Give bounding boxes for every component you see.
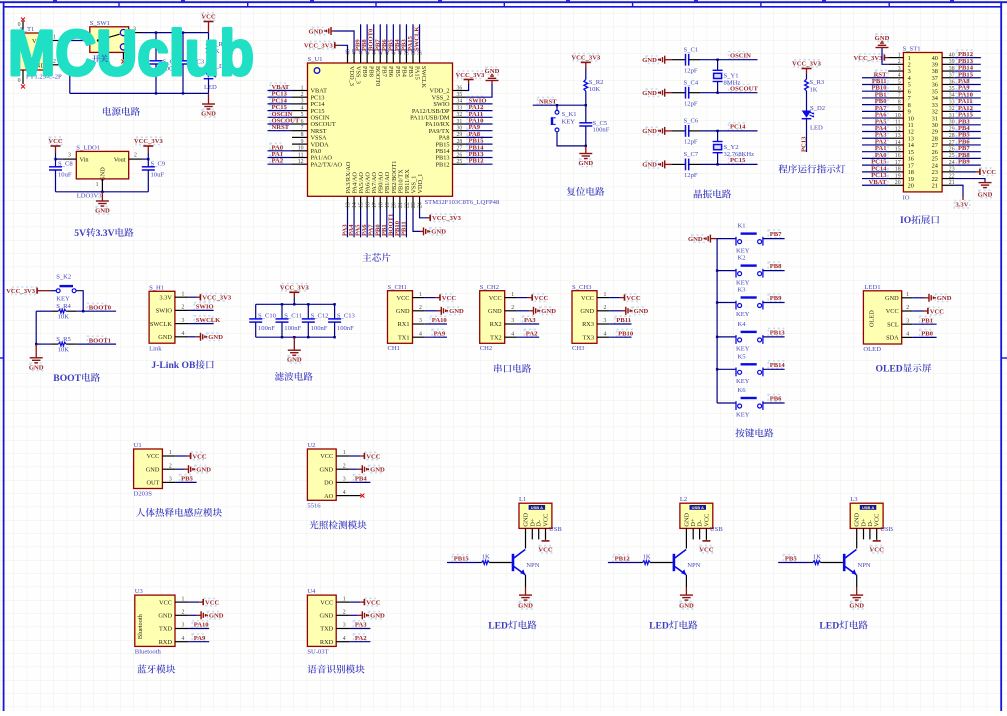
pin 0 top of S_T1 (22, 21, 24, 33)
junction y1 top (716, 59, 718, 61)
wire net PA9 (466, 130, 493, 132)
wire io right PB4 (954, 131, 981, 133)
ST1 pin 38 (942, 70, 954, 72)
svg-text:2: 2 (906, 305, 909, 311)
svg-text:GND: GND (978, 191, 993, 198)
wire rail to K5 (717, 368, 736, 370)
ST1 pin 9 (888, 110, 903, 112)
svg-text:1: 1 (511, 292, 514, 298)
wire net PB4 U2 (350, 481, 371, 483)
svg-text:SCL: SCL (887, 321, 899, 328)
svg-text:10uF: 10uF (151, 172, 165, 179)
svg-text:PB14: PB14 (770, 362, 786, 369)
switch bottom pin b (122, 52, 124, 59)
pin 32 PA11/USB/DM (453, 116, 467, 118)
wire base PB5 (778, 562, 809, 564)
U3 pin 3 TXD (175, 628, 188, 630)
ground GND U3 (188, 614, 196, 616)
svg-text:1: 1 (604, 292, 607, 298)
svg-text:GND: GND (29, 364, 44, 371)
power port VCC ch1 (425, 297, 436, 299)
svg-text:15: 15 (359, 202, 365, 208)
transistor Q NPN L1 (512, 554, 515, 571)
pin 17 PA7/AO (373, 196, 375, 209)
svg-text:30: 30 (949, 120, 955, 126)
svg-text:1: 1 (96, 182, 99, 188)
ground GND S_C7 (664, 160, 666, 168)
svg-text:KEY: KEY (736, 346, 750, 353)
pin 2 Vout (129, 158, 142, 160)
pin 28 PB15 (453, 143, 467, 145)
U2 pin 1 VCC (336, 455, 349, 457)
svg-text:3: 3 (511, 318, 514, 324)
H1 pin 3 SWCLK (175, 323, 188, 325)
svg-text:S_D2: S_D2 (810, 105, 825, 112)
svg-text:7: 7 (898, 93, 901, 99)
svg-text:4: 4 (182, 636, 185, 642)
svg-text:VCC: VCC (886, 308, 899, 315)
U3 pin 1 VCC (175, 601, 188, 603)
svg-text:GND: GND (287, 357, 302, 364)
junction rail K3 (716, 301, 718, 303)
svg-text:1K: 1K (810, 87, 818, 94)
svg-text:14: 14 (895, 140, 901, 146)
pin 26 PB13 (453, 157, 467, 159)
key S_K2 (56, 289, 60, 293)
power port VCC_3V3 io (884, 57, 888, 59)
pin 46 PB9 (360, 53, 362, 63)
svg-text:3: 3 (169, 477, 172, 483)
wire io left VBAT (862, 184, 888, 186)
svg-text:100nF: 100nF (284, 325, 301, 332)
junction bot S_C13 (333, 336, 335, 338)
svg-text:K6: K6 (738, 387, 747, 394)
svg-text:U4: U4 (307, 588, 316, 595)
wire top net SWCLK (419, 24, 421, 53)
power bottom rail wire (70, 92, 209, 94)
wire net OSCOUT (268, 123, 293, 125)
svg-text:32: 32 (949, 106, 955, 112)
wire net PA3 (517, 323, 539, 325)
ST1 pin 15 (888, 151, 903, 153)
ground GND S_C1 (664, 56, 666, 64)
connector S_CH3 body (572, 291, 597, 344)
svg-text:OSCIN: OSCIN (730, 53, 751, 60)
wire net SWIO (188, 309, 214, 311)
svg-text:40: 40 (949, 52, 955, 58)
svg-text:GND: GND (95, 208, 110, 215)
svg-text:GND: GND (196, 467, 211, 474)
svg-text:10uF: 10uF (58, 172, 72, 179)
ST1 pin 28 (942, 137, 954, 139)
ground GND oled (912, 297, 924, 299)
pin 4 PC15 (292, 110, 308, 112)
pin 25 PB12 (453, 163, 467, 165)
svg-text:K1: K1 (738, 223, 746, 230)
wire D1 to rail (208, 79, 210, 94)
svg-text:32: 32 (457, 112, 463, 118)
wire top net PB5 (392, 24, 394, 53)
svg-text:S_K2: S_K2 (56, 273, 71, 280)
svg-text:GND: GND (320, 466, 334, 473)
CH2 pin 1 VCC (505, 297, 517, 299)
ST1 pin 11 (888, 124, 903, 126)
svg-text:PB10: PB10 (618, 330, 634, 337)
power port VCC (204, 21, 214, 23)
svg-text:1: 1 (169, 450, 172, 456)
connector S_T1 (16, 33, 49, 70)
power port VCC U3 (188, 601, 199, 603)
wire io right PB9 (954, 164, 981, 166)
svg-text:LED: LED (819, 621, 839, 632)
L2 emitter wire (685, 575, 687, 588)
svg-text:GND: GND (541, 308, 556, 315)
ground GND L3 (856, 588, 858, 595)
L1 pin D+ (531, 528, 533, 539)
module U3 body (135, 595, 175, 646)
power port VCC U2 (350, 455, 361, 457)
wire net PC13 (268, 96, 293, 98)
pin 41 PB5 (392, 53, 394, 63)
pin 33 PA12/USB/DP (453, 110, 467, 112)
svg-text:BOOT0: BOOT0 (89, 304, 112, 311)
ST1 pin 33 (942, 104, 954, 106)
pin 47 VSS_3 (353, 53, 355, 63)
svg-text:20: 20 (908, 182, 914, 189)
wire R1 to D1 (208, 54, 210, 70)
ST1 pin 13 (888, 137, 903, 139)
power port VCC_3V3 reset (581, 61, 591, 63)
capacitor S_C4 (672, 92, 686, 94)
pin 23 VSS_1 (412, 196, 414, 209)
connector S_CH2 body (480, 291, 505, 344)
U2 no-connect pin (350, 495, 361, 497)
U4 pin 2 GND (336, 614, 349, 616)
wire io left RST (862, 77, 888, 79)
wire boot0 left (36, 310, 52, 312)
svg-text:1: 1 (898, 52, 901, 58)
svg-text:3.3V: 3.3V (96, 228, 115, 239)
junction boot1 (35, 343, 37, 345)
svg-text:PB5: PB5 (181, 476, 193, 483)
svg-text:4: 4 (343, 636, 346, 642)
svg-text:GND: GND (309, 28, 324, 35)
svg-text:9: 9 (301, 139, 304, 145)
svg-text:GND: GND (431, 229, 446, 236)
U1 pin 2 GND (162, 468, 175, 470)
svg-text:VCC_3V3: VCC_3V3 (571, 55, 601, 62)
power port VCC L1 (545, 528, 547, 539)
LED S_D1 (204, 71, 214, 78)
junction rail K5 (716, 368, 718, 370)
svg-text:VCC: VCC (870, 547, 885, 554)
regulator S_LDO1 (76, 151, 128, 179)
module U2 body (307, 449, 336, 500)
CH2 pin 4 TX2 (505, 336, 517, 338)
svg-text:CH2: CH2 (480, 345, 492, 352)
ST1 pin 34 (942, 97, 954, 99)
pin 37 SWCLK (419, 53, 421, 63)
connector L3 USB body (850, 503, 883, 528)
wire net OSCOUT (700, 92, 758, 94)
svg-text:4: 4 (898, 73, 901, 79)
key K6 (735, 401, 737, 410)
svg-text:KEY: KEY (562, 119, 576, 126)
svg-text:VCC: VCC (930, 308, 945, 315)
ground GND ch1 (425, 310, 437, 312)
junction bot S_C11 (281, 336, 283, 338)
svg-text:GND: GND (208, 334, 223, 341)
wire net PA8 (466, 136, 493, 138)
keys rail wire (716, 239, 718, 403)
wire io right PA8 (954, 83, 981, 85)
junction bot S_C12 (307, 336, 309, 338)
ST1 pin 18 (888, 171, 903, 173)
ST1 pin 27 (942, 144, 954, 146)
svg-text:8: 8 (898, 99, 901, 105)
svg-text:21: 21 (932, 182, 938, 189)
svg-text:TX3: TX3 (582, 334, 594, 341)
svg-text:10: 10 (298, 146, 304, 152)
svg-text:LED: LED (649, 621, 669, 632)
wire net NRST (268, 130, 293, 132)
svg-text:13: 13 (895, 133, 901, 139)
junction top S_C11 (281, 303, 283, 305)
wire bottom net BOOT1 (392, 210, 394, 238)
svg-text:LED: LED (810, 125, 823, 132)
svg-text:9: 9 (898, 106, 901, 112)
wire net PA9 U3 (188, 641, 209, 643)
wire net PB14 (466, 150, 493, 152)
svg-text:S_C10: S_C10 (258, 312, 277, 319)
capacitor S_C11 (281, 304, 283, 319)
junction top S_C12 (307, 303, 309, 305)
svg-text:3: 3 (301, 99, 304, 105)
L2 collector wire (685, 528, 687, 548)
junction top S_C13 (333, 303, 335, 305)
svg-text:5: 5 (301, 112, 304, 118)
capacitor S_C13 (334, 304, 336, 319)
crystal S_Y1 (717, 60, 719, 71)
svg-text:VCC_3V3: VCC_3V3 (456, 72, 486, 79)
ST1 pin 21 (942, 184, 954, 186)
ground GND bottom (413, 210, 420, 232)
ST1 pin 26 (942, 151, 954, 153)
L3 emitter wire (856, 575, 858, 588)
capacitor S_C2 (155, 33, 157, 61)
resistor 1K L1 (478, 562, 482, 564)
svg-text:35: 35 (457, 92, 463, 98)
L3 pin D+ (863, 528, 865, 539)
pin 1 S_T1 VCC (49, 40, 62, 42)
L1 collector wire (525, 528, 527, 548)
capacitor S_C7 (672, 163, 686, 165)
pin 48 VDD_3 (347, 53, 349, 63)
svg-text:GND: GND (642, 128, 657, 135)
wire io right PB15 (954, 77, 981, 79)
svg-text:3.3V: 3.3V (955, 202, 968, 209)
svg-text:USB A: USB A (531, 505, 543, 510)
key K2 (735, 269, 737, 278)
svg-text:PA9: PA9 (434, 330, 446, 337)
svg-text:CH3: CH3 (572, 345, 585, 352)
wire net OSCIN (700, 59, 758, 61)
pin 19 PB1/AO (386, 196, 388, 209)
svg-text:3: 3 (343, 623, 346, 629)
junction at C2 top (155, 31, 157, 33)
svg-text:10K: 10K (58, 347, 70, 354)
svg-text:PB11: PB11 (400, 221, 407, 236)
svg-text:17: 17 (895, 160, 901, 166)
svg-text:VCC: VCC (192, 453, 207, 460)
wire net PA2 U4 (350, 641, 371, 643)
svg-text:OSCOUT: OSCOUT (730, 86, 758, 93)
wire net PA0 (268, 150, 293, 152)
svg-text:22: 22 (949, 173, 955, 179)
wire VCC rail down to R1 (208, 33, 210, 43)
svg-text:L1: L1 (519, 496, 526, 503)
pin 10 PA0 (292, 150, 308, 152)
svg-text:PB7: PB7 (381, 66, 388, 77)
wire rail to K4 (717, 336, 736, 338)
wire io left PA4 (862, 131, 888, 133)
svg-text:VCC: VCC (146, 453, 159, 460)
svg-text:IO: IO (900, 215, 911, 226)
svg-text:NRST: NRST (539, 98, 557, 105)
svg-text:1: 1 (343, 596, 346, 602)
svg-text:RX2: RX2 (490, 321, 502, 328)
svg-text:4: 4 (182, 331, 185, 337)
ST1 pin 19 (888, 178, 903, 180)
pin 21 PB10/TX (399, 196, 401, 209)
wire io left PA1 (862, 151, 888, 153)
svg-text:VCC: VCC (982, 169, 997, 176)
ST1 pin 23 (942, 171, 954, 173)
wire base PB12 (608, 562, 639, 564)
wire boot rail (35, 311, 37, 344)
svg-text:20: 20 (391, 202, 397, 208)
svg-text:25: 25 (949, 153, 955, 159)
svg-text:GND: GND (100, 167, 107, 181)
svg-text:VSS_3: VSS_3 (354, 66, 361, 84)
key K5 (735, 368, 737, 377)
ST1 pin 5 (888, 83, 903, 85)
svg-text:VCC: VCC (159, 599, 172, 606)
wire net BOOT0 (77, 310, 116, 312)
ground GND U4 (350, 614, 358, 616)
capacitor S_C10 (255, 304, 257, 319)
svg-text:VCC: VCC (205, 599, 220, 606)
key K1 (735, 237, 737, 246)
svg-text:12: 12 (895, 126, 901, 132)
svg-text:3: 3 (182, 623, 185, 629)
svg-text:21: 21 (949, 180, 955, 186)
CH2 pin 2 GND (505, 310, 517, 312)
wire net PA11 (466, 116, 493, 118)
svg-text:24: 24 (949, 160, 955, 166)
svg-text:SWCLK: SWCLK (420, 66, 427, 88)
svg-text:2: 2 (419, 305, 422, 311)
svg-text:Bluetooth: Bluetooth (137, 613, 144, 639)
ST1 pin 31 (942, 117, 954, 119)
wire base PB15 (447, 562, 478, 564)
compile mask dots (202, 13, 214, 20)
wire io right PB12 (954, 57, 981, 59)
svg-text:RXD: RXD (320, 639, 334, 646)
ST1 pin 20 (888, 184, 903, 186)
wire io left PB0 (862, 104, 888, 106)
wire io right PA9 (954, 90, 981, 92)
svg-text:100nF: 100nF (337, 325, 354, 332)
wire D2 down (806, 119, 808, 152)
svg-text:GND: GND (370, 467, 385, 474)
wire io right PB5 (954, 137, 981, 139)
pin 30 PA9/TX (453, 130, 467, 132)
power port VCC L2 (705, 528, 707, 539)
resistor S_R3 (805, 79, 809, 91)
svg-text:GND: GND (642, 90, 657, 97)
wire net PA10 (425, 323, 447, 325)
connector L2 USB body (680, 503, 713, 528)
svg-text:GND: GND (642, 162, 657, 169)
wire net VBAT (268, 90, 293, 92)
junction c5 bottom (585, 145, 587, 147)
junction C8 top (54, 158, 56, 160)
svg-text:GND: GND (209, 613, 224, 620)
CH1 pin 4 TX1 (413, 336, 425, 338)
svg-text:1K: 1K (813, 553, 821, 560)
svg-text:TX1: TX1 (398, 334, 410, 341)
ground GND U1 (176, 468, 184, 470)
CH3 pin 1 VCC (597, 297, 609, 299)
power port VCC_3V3 ldo (143, 145, 153, 147)
svg-text:PB8: PB8 (368, 66, 375, 77)
ST1 pin 24 (942, 164, 954, 166)
ground GND top (334, 31, 354, 53)
capacitor S_C5 (585, 105, 587, 123)
wire bottom net PA6 (366, 210, 368, 238)
U3 pin 4 RXD (175, 641, 188, 643)
svg-text:VCC_3V3: VCC_3V3 (134, 138, 164, 145)
svg-text:PA10: PA10 (432, 317, 448, 324)
wire io left PB11 (862, 83, 888, 85)
svg-text:PB11: PB11 (616, 317, 631, 324)
power port VCC io (954, 171, 976, 173)
svg-text:16: 16 (895, 153, 901, 159)
pin 22 PB11/RX (405, 196, 407, 209)
ground GND power (208, 93, 210, 104)
net 3.3V stub (954, 185, 963, 196)
wire bottom net PA4 (353, 210, 355, 238)
wire NRST (533, 104, 586, 106)
svg-text:25: 25 (457, 159, 463, 165)
svg-text:RX1: RX1 (398, 321, 410, 328)
CH2 pin 3 RX2 (505, 323, 517, 325)
svg-text:6: 6 (301, 119, 304, 125)
svg-text:3: 3 (898, 66, 901, 72)
wire io left PA6 (862, 117, 888, 119)
svg-text:RX3: RX3 (582, 321, 594, 328)
resistor S_R1 (207, 43, 211, 55)
svg-text:VCC: VCC (534, 295, 549, 302)
svg-text:Link: Link (149, 346, 162, 353)
svg-text:BOOT0: BOOT0 (374, 66, 381, 86)
ground GND ch2 (517, 310, 529, 312)
svg-text:PB0: PB0 (921, 331, 933, 338)
wire net PA12 (466, 110, 493, 112)
pin 34 SWIO (453, 103, 467, 105)
svg-text:VCC_3V3: VCC_3V3 (280, 285, 310, 292)
